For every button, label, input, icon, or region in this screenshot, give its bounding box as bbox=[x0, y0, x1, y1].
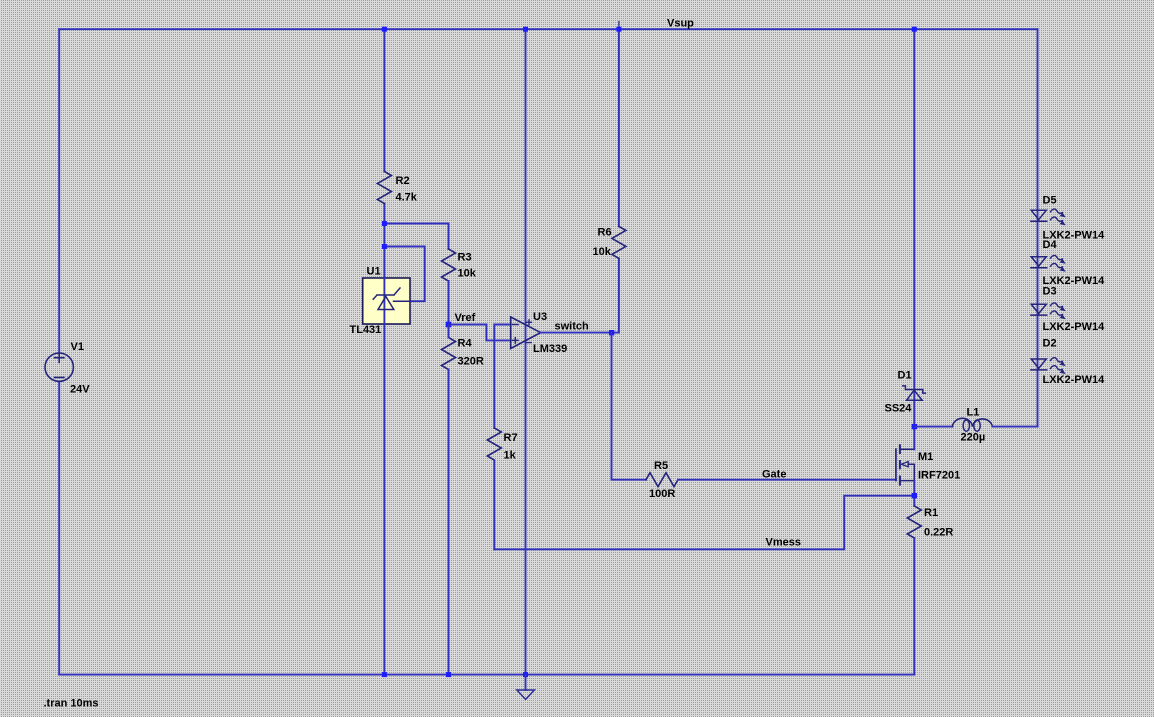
net flag Vsup bbox=[619, 18, 694, 30]
svg-text:100R: 100R bbox=[649, 488, 675, 500]
wire R4 to bottom rail bbox=[448, 370, 450, 675]
wire column R2/TL431 bbox=[383, 29, 385, 674]
svg-text:U1: U1 bbox=[367, 266, 381, 278]
svg-text:TL431: TL431 bbox=[350, 324, 382, 336]
inductor L1 bbox=[952, 407, 992, 444]
LED D5 bbox=[1031, 195, 1105, 242]
node Vref bbox=[446, 312, 476, 327]
svg-text:M1: M1 bbox=[918, 451, 933, 463]
wire drain up to D1/L1 node bbox=[913, 427, 915, 450]
svg-text:1k: 1k bbox=[504, 450, 517, 462]
node D1-L1 junction bbox=[912, 424, 917, 429]
svg-text:D5: D5 bbox=[1043, 195, 1057, 207]
resistor R2 bbox=[377, 172, 417, 204]
svg-text:LXK2-PW14: LXK2-PW14 bbox=[1043, 321, 1106, 333]
wire R7 down to Vmess bbox=[493, 461, 495, 550]
TL431 U1 box bbox=[363, 278, 410, 324]
svg-text:320R: 320R bbox=[458, 356, 484, 368]
svg-text:0.22R: 0.22R bbox=[924, 527, 953, 539]
wire TL431 ref feedback bbox=[384, 247, 424, 302]
resistor R4 bbox=[442, 338, 484, 370]
wire bottom rail bbox=[59, 674, 914, 676]
svg-text:R6: R6 bbox=[598, 227, 612, 239]
svg-text:L1: L1 bbox=[967, 407, 980, 419]
svg-text:V1: V1 bbox=[71, 341, 84, 353]
wire op-amp output switch bbox=[541, 321, 619, 333]
resistor R6 bbox=[593, 226, 626, 258]
svg-text:Vref: Vref bbox=[455, 312, 476, 324]
resistor R5 bbox=[646, 460, 678, 500]
node bottom rail junction R4 column bbox=[446, 672, 451, 677]
svg-text:.tran 10ms: .tran 10ms bbox=[44, 698, 99, 710]
TL431 symbol bbox=[350, 266, 411, 337]
wire net Gate bbox=[678, 469, 896, 481]
wire R2 to R3 branch bbox=[384, 224, 448, 250]
resistor R7 bbox=[487, 428, 517, 462]
node top rail junction M1 column bbox=[912, 27, 917, 32]
svg-text:Vsup: Vsup bbox=[667, 18, 694, 30]
resistor R1 bbox=[907, 506, 953, 539]
wire top rail Vsup bbox=[59, 28, 1037, 30]
svg-text:D2: D2 bbox=[1043, 338, 1057, 350]
spice directive tran bbox=[44, 698, 99, 710]
node bottom rail junction TL431 column bbox=[382, 672, 387, 677]
node junction feedback bbox=[382, 244, 387, 249]
voltage source V1 bbox=[45, 341, 90, 396]
node junction R2-R3 bbox=[382, 221, 387, 226]
wire R1 to bottom rail bbox=[913, 538, 915, 675]
svg-text:220µ: 220µ bbox=[961, 432, 986, 444]
wire switch node down to gate row bbox=[612, 333, 647, 480]
wire LED column top bbox=[1037, 29, 1039, 426]
wire junction to L1 bbox=[914, 426, 952, 428]
node switch bbox=[609, 330, 614, 335]
wire R7 to op-amp minus input bbox=[494, 325, 510, 429]
LED D4 bbox=[1031, 239, 1105, 287]
svg-text:U3: U3 bbox=[533, 311, 547, 323]
LED D3 bbox=[1031, 286, 1105, 334]
node top rail junction R6 bbox=[616, 27, 621, 32]
svg-text:R2: R2 bbox=[396, 175, 410, 187]
svg-text:R5: R5 bbox=[654, 460, 668, 472]
wire net Vmess bbox=[494, 496, 914, 550]
svg-text:D4: D4 bbox=[1043, 239, 1058, 251]
wire R4 top stub bbox=[448, 325, 450, 338]
mosfet M1 IRF7201 bbox=[896, 445, 960, 484]
svg-text:R3: R3 bbox=[458, 252, 472, 264]
svg-text:R7: R7 bbox=[504, 432, 518, 444]
wire R6 column bbox=[618, 29, 620, 332]
svg-text:LXK2-PW14: LXK2-PW14 bbox=[1043, 374, 1106, 386]
wire Vref to op-amp plus input bbox=[451, 325, 511, 341]
node bottom rail junction ground column bbox=[523, 672, 528, 677]
svg-text:D1: D1 bbox=[898, 370, 912, 382]
node source junction bbox=[912, 493, 917, 498]
LED D2 bbox=[1031, 338, 1105, 387]
svg-text:10k: 10k bbox=[458, 268, 477, 280]
wire source to junction bbox=[913, 481, 915, 506]
svg-text:switch: switch bbox=[555, 321, 590, 333]
svg-text:Vmess: Vmess bbox=[766, 537, 801, 549]
svg-text:IRF7201: IRF7201 bbox=[918, 470, 960, 482]
wire ground column bbox=[525, 29, 527, 674]
svg-text:24V: 24V bbox=[70, 384, 90, 396]
svg-text:D3: D3 bbox=[1043, 286, 1057, 298]
wire R3 to Vref bbox=[448, 281, 450, 325]
svg-text:10k: 10k bbox=[593, 246, 612, 258]
wire top to D1 bbox=[913, 29, 915, 426]
node top rail junction R2 bbox=[382, 27, 387, 32]
svg-text:4.7k: 4.7k bbox=[396, 192, 418, 204]
node top rail junction ground column bbox=[523, 27, 528, 32]
svg-text:LM339: LM339 bbox=[533, 343, 567, 355]
resistor R3 bbox=[442, 249, 477, 281]
ground symbol bbox=[517, 675, 535, 700]
op-amp U3 LM339 bbox=[511, 311, 568, 355]
svg-text:Gate: Gate bbox=[762, 469, 786, 481]
svg-text:R4: R4 bbox=[458, 338, 473, 350]
wire left rail bbox=[58, 29, 60, 674]
svg-text:R1: R1 bbox=[924, 507, 938, 519]
wire L1 to LED string corner bbox=[992, 426, 1037, 428]
diode D1 SS24 bbox=[885, 370, 926, 415]
svg-text:SS24: SS24 bbox=[885, 403, 913, 415]
